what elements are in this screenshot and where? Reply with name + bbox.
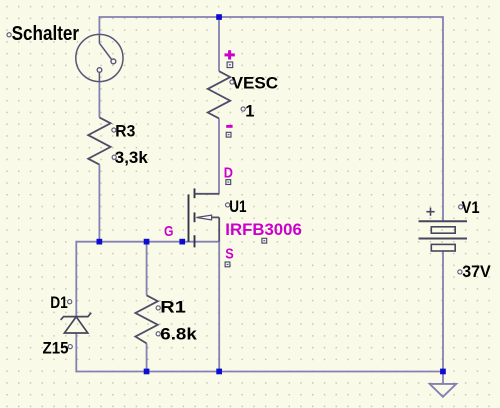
anchor circle D1 [68,300,72,304]
battery V1 plus sign [426,208,434,216]
svg-text:S: S [225,246,234,263]
anchor circle 6.8k [156,332,160,336]
switch bottom internal lead [98,72,100,82]
junction at VESC top [216,14,222,20]
svg-text:G: G [164,223,174,240]
battery V1 middle plate [419,238,468,240]
battery V1 top plate [419,220,468,222]
junction at R3/gate rail [97,239,103,245]
wire R3 bottom to gate rail [98,165,100,242]
wire zener to bottom rail [75,333,77,372]
svg-text:VESC: VESC [232,75,279,93]
wire left branch down to zener [75,241,77,316]
resistor VESC zigzag [208,71,230,118]
anchor square plus [227,62,233,68]
switch contact A [111,59,116,64]
svg-text:D: D [224,165,233,182]
anchor square IRFB3006 [262,238,267,243]
anchor circle Schalter [7,33,11,37]
mosfet U1 drain stub [195,193,220,195]
svg-text:U1: U1 [229,198,246,216]
junction at ground [440,369,446,375]
wire R1 bottom lead [146,343,148,371]
mosfet U1 gate bar [188,194,190,241]
zener D1 cathode bar [61,313,92,320]
mosfet U1 channel segment top [194,188,196,198]
switch S1 circle [76,34,123,81]
battery V1 cell box 1 [431,227,455,233]
svg-text:3,3k: 3,3k [115,149,149,167]
svg-text:1: 1 [245,103,254,121]
wire VESC bottom lead to drain [218,118,220,193]
mosfet U1 body-source vertical [218,217,220,241]
svg-text:V1: V1 [462,199,480,217]
battery V1 cell box 2 [431,244,455,251]
switch top internal lead [98,34,100,43]
anchor circle 1 [241,107,245,111]
junction at R1 top [144,239,150,245]
svg-text:Z15: Z15 [43,340,69,358]
wire R1 top lead [146,242,148,296]
wire bottom rail [76,371,443,373]
switch contact B [97,68,102,73]
junction at R1 bottom [144,369,150,375]
mosfet U1 channel segment middle [194,212,196,222]
svg-text:6.8k: 6.8k [160,325,197,343]
anchor circle 3,3k [112,155,116,159]
label minus VESC [226,125,232,128]
resistor R1 zigzag [135,295,157,343]
anchor circle R1 [156,306,160,310]
anchor circle VESC [230,80,234,84]
anchor square S [225,262,230,267]
anchor circle V1 [459,205,463,209]
wire gate rail horizontal [76,241,219,243]
anchor square minus [226,132,231,137]
svg-text:IRFB3006: IRFB3006 [225,221,301,239]
anchor circle R3 [112,128,116,132]
ground symbol [430,384,457,397]
label plus VESC [225,50,235,59]
mosfet U1 body arrow [196,215,211,220]
svg-text:D1: D1 [50,294,68,312]
wire mosfet source lead down [218,242,220,372]
resistor R3 zigzag [88,117,110,164]
junction at source bottom [216,369,222,375]
svg-text:Schalter: Schalter [12,23,80,45]
mosfet U1 body line [211,216,220,218]
zener D1 triangle [64,317,87,333]
switch lever [99,43,111,59]
wire top rail from switch to right rail down to battery [99,17,443,221]
anchor circle 37V [458,270,462,274]
svg-text:R3: R3 [115,122,135,140]
svg-text:37V: 37V [462,263,491,281]
wire switch bottom to R3 top [98,82,100,118]
svg-text:R1: R1 [160,298,186,316]
anchor circle U1 [226,203,230,207]
mosfet U1 channel segment bottom [194,235,196,247]
junction at gate pin [179,239,185,245]
wire VESC top lead [218,17,220,71]
anchor circle Z15 [68,345,72,349]
wire battery bottom to ground [442,251,444,384]
anchor square D [226,180,231,185]
